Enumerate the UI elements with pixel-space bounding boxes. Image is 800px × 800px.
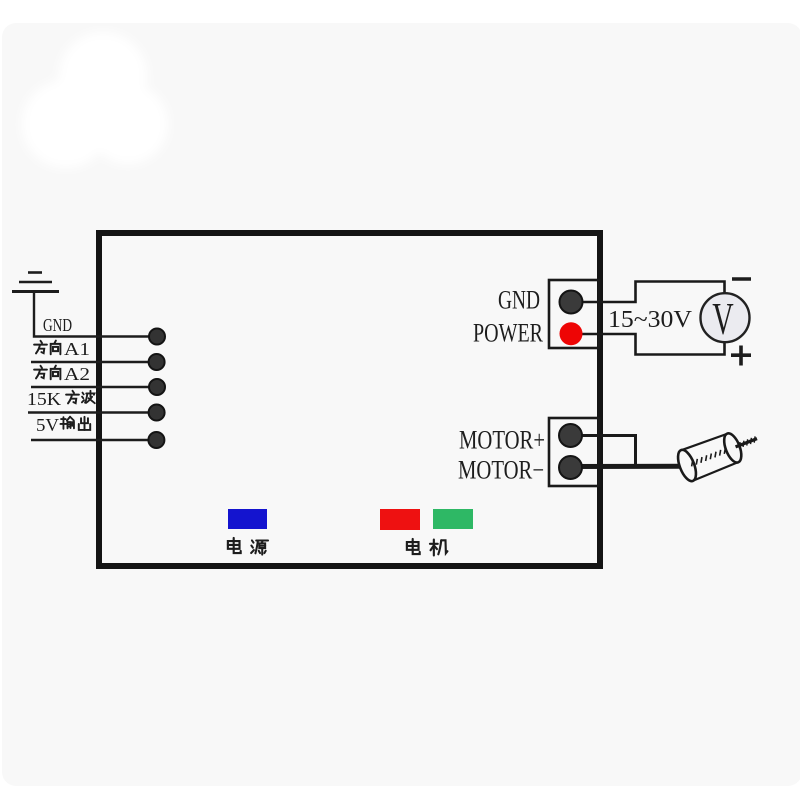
wire: 方向A1 pin	[31, 361, 150, 363]
wire: 15K方波 pin	[28, 411, 150, 413]
wire: GND terminal to supply minus	[571, 282, 725, 303]
svg-text:5V: 5V	[36, 415, 59, 435]
wire: POWER terminal to supply plus	[571, 334, 725, 355]
svg-text:A1: A1	[64, 339, 90, 359]
pin dot 方向A1	[149, 354, 165, 370]
legend swatch: motor indicator (red)	[380, 509, 420, 530]
motor shaft	[736, 439, 757, 447]
label 5V输出	[36, 415, 90, 435]
terminal pin MOTOR+ (black)	[559, 424, 582, 447]
module board outline	[99, 233, 600, 566]
legend label 电源	[228, 538, 268, 555]
voltmeter V1	[701, 293, 750, 344]
terminal block: motor (MOTOR+/MOTOR-)	[549, 418, 599, 486]
terminal block: power (GND/POWER)	[549, 280, 599, 348]
legend swatch: motor indicator (green)	[433, 509, 473, 529]
label 方向A1	[34, 339, 90, 359]
label 15K方波	[27, 389, 95, 409]
terminal pin POWER (red)	[560, 322, 583, 345]
minus terminal mark	[732, 277, 751, 281]
pin dot 15K方波	[149, 405, 165, 421]
plus terminal mark	[731, 346, 751, 366]
wire: MOTOR+ branch	[571, 436, 636, 465]
svg-text:A2: A2	[64, 364, 90, 384]
svg-text:15~30V: 15~30V	[608, 307, 693, 333]
svg-text:MOTOR−: MOTOR−	[458, 456, 544, 485]
ground symbol	[12, 273, 59, 292]
white highlight blob (paper glare)	[22, 32, 168, 168]
svg-text:GND: GND	[43, 315, 72, 335]
svg-text:V: V	[712, 295, 734, 345]
pin dot 5V输出	[148, 432, 164, 448]
svg-text:GND: GND	[498, 286, 540, 315]
pin dot 方向A2	[149, 379, 165, 395]
svg-text:POWER: POWER	[473, 319, 544, 348]
wire: MOTOR- lead to motor	[571, 464, 685, 469]
label 方向A2	[34, 364, 90, 384]
svg-text:MOTOR+: MOTOR+	[459, 426, 545, 455]
wire: 方向A2 pin	[31, 386, 150, 388]
wire: 5V输出 pin	[31, 439, 150, 441]
svg-text:15K: 15K	[27, 389, 61, 409]
pin dot GND	[149, 329, 165, 345]
legend swatch: power indicator (blue)	[228, 509, 267, 529]
legend label 电机	[407, 539, 448, 555]
terminal pin GND (black)	[560, 291, 583, 314]
motor M (cylinder)	[674, 423, 763, 483]
wire: ground to GND pin	[34, 292, 150, 337]
terminal pin MOTOR- (black)	[559, 456, 582, 479]
